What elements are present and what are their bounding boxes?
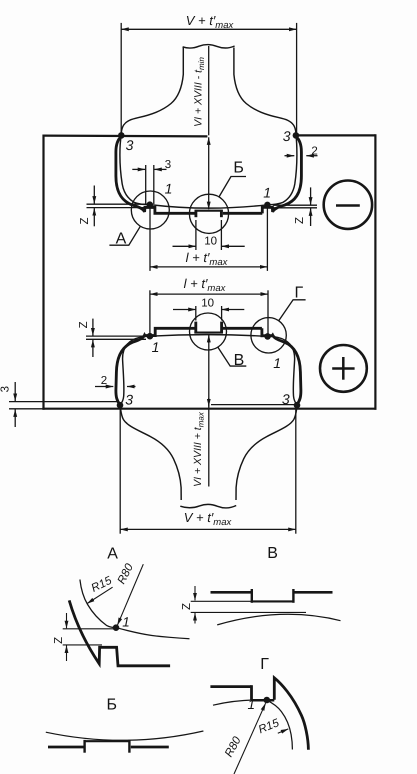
svg-text:1: 1 [248,697,256,712]
svg-text:10: 10 [201,297,214,309]
svg-text:R15: R15 [257,717,282,736]
svg-text:1: 1 [273,355,281,371]
svg-text:1: 1 [263,184,271,200]
svg-text:Б: Б [233,160,244,177]
svg-text:l + t′max: l + t′max [184,276,227,294]
svg-text:Z: Z [181,603,193,610]
svg-text:V + t′max: V + t′max [184,510,233,528]
svg-text:1: 1 [122,614,130,629]
svg-text:R15: R15 [90,575,115,595]
svg-text:R80: R80 [116,561,137,586]
svg-text:1: 1 [165,181,173,197]
svg-text:l + t′max: l + t′max [186,250,229,268]
svg-text:А: А [107,546,118,563]
svg-text:2: 2 [101,375,107,387]
svg-text:Z: Z [294,217,306,224]
svg-text:В: В [267,545,278,562]
svg-text:3: 3 [125,392,133,408]
svg-text:3: 3 [0,386,12,392]
svg-text:Г: Г [294,285,303,302]
svg-text:Z: Z [53,637,65,644]
svg-text:VI + XVIII - tmin: VI + XVIII - tmin [192,57,206,127]
svg-text:VI + XVIII + tmax: VI + XVIII + tmax [192,411,206,487]
svg-text:3: 3 [282,391,290,407]
svg-text:3: 3 [126,137,134,153]
svg-text:Z: Z [78,321,90,328]
svg-text:3: 3 [283,128,291,144]
svg-text:2: 2 [311,145,317,157]
svg-text:Г: Г [260,656,269,673]
svg-text:10: 10 [204,236,217,248]
svg-text:1: 1 [152,339,160,355]
svg-text:А: А [116,231,127,248]
svg-text:3: 3 [165,159,171,171]
svg-text:V + t′max: V + t′max [186,13,235,31]
svg-text:Б: Б [107,696,118,713]
svg-text:Z: Z [79,217,91,224]
svg-text:R80: R80 [223,734,244,759]
svg-text:В: В [234,352,245,369]
